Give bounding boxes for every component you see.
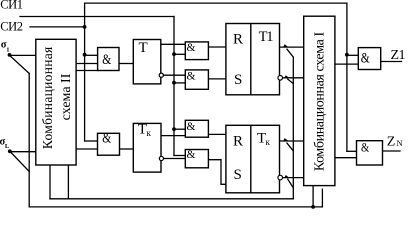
svg-text:R: R <box>233 134 243 150</box>
svg-text:&: & <box>102 52 111 68</box>
svg-text:&: & <box>187 42 196 54</box>
svg-text:&: & <box>187 121 196 133</box>
svg-text:&: & <box>102 131 111 147</box>
svg-text:&: & <box>187 149 196 161</box>
svg-text:Z: Z <box>387 135 396 150</box>
svg-text:T: T <box>139 40 148 56</box>
svg-text:СИ2: СИ2 <box>0 20 23 34</box>
svg-text:к: к <box>266 137 271 147</box>
svg-text:L: L <box>5 143 10 150</box>
svg-text:S: S <box>234 167 242 183</box>
svg-text:Z1: Z1 <box>391 48 406 63</box>
svg-text:&: & <box>361 140 369 155</box>
svg-text:&: & <box>361 51 371 67</box>
svg-text:Комбинационная схема I: Комбинационная схема I <box>313 32 328 172</box>
svg-text:схема II: схема II <box>59 73 74 120</box>
svg-text:N: N <box>397 138 403 148</box>
svg-text:R: R <box>233 31 243 47</box>
svg-text:&: & <box>187 70 196 82</box>
svg-text:T1: T1 <box>259 29 274 45</box>
svg-text:S: S <box>234 72 242 88</box>
svg-text:1: 1 <box>6 46 9 53</box>
svg-text:СИ1: СИ1 <box>0 0 23 12</box>
svg-text:Комбинационная: Комбинационная <box>40 46 55 149</box>
svg-text:к: к <box>147 128 152 138</box>
